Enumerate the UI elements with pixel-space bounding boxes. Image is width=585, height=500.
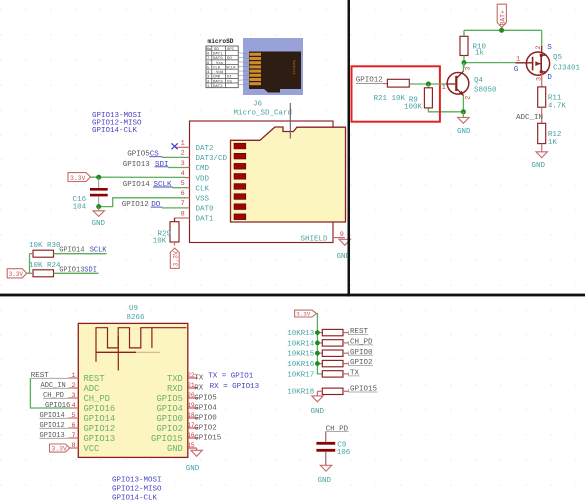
svg-text:VDD: VDD xyxy=(196,175,210,183)
svg-text:15: 15 xyxy=(187,442,195,449)
resistor R11 4.7K xyxy=(538,87,567,110)
svg-text:10K R30: 10K R30 xyxy=(29,242,61,250)
svg-text:R11: R11 xyxy=(548,95,562,103)
junction Q4 emitter xyxy=(461,109,466,114)
net label GPIO2 (R16) xyxy=(349,359,374,367)
svg-text:GPIO14: GPIO14 xyxy=(59,246,84,254)
resistor R12 1K xyxy=(538,123,562,147)
capacitor C16 104 xyxy=(73,177,108,211)
svg-text:ADC_IN: ADC_IN xyxy=(41,382,66,390)
svg-text:GPIO5: GPIO5 xyxy=(127,151,150,159)
svg-text:REST: REST xyxy=(84,374,105,384)
U9 pin 2 ADC xyxy=(41,382,100,394)
svg-text:DAT3: DAT3 xyxy=(213,80,223,84)
no-connect X on J6 pin 1 xyxy=(171,143,177,149)
svg-text:microSD: microSD xyxy=(208,38,234,45)
supply 3.3V (pull-ups) xyxy=(295,310,317,317)
svg-text:R12: R12 xyxy=(548,131,562,139)
svg-text:GPIO2: GPIO2 xyxy=(194,425,217,433)
svg-text:No: No xyxy=(207,48,212,52)
svg-text:4.7K: 4.7K xyxy=(548,102,567,110)
section divider vertical xyxy=(348,0,351,296)
svg-text:10KR17: 10KR17 xyxy=(287,371,314,379)
U9 pin 18 GPIO0 xyxy=(157,412,218,424)
svg-text:GPIO14: GPIO14 xyxy=(40,412,65,420)
svg-text:GND: GND xyxy=(532,162,546,170)
svg-text:U9: U9 xyxy=(129,305,138,313)
IC U9 8266 body xyxy=(78,305,188,457)
svg-text:10KR16: 10KR16 xyxy=(287,361,315,369)
junction R15 xyxy=(315,351,320,356)
svg-text:SHIELD: SHIELD xyxy=(301,235,329,243)
svg-text:VSS: VSS xyxy=(196,196,210,204)
svg-text:2: 2 xyxy=(181,150,185,158)
svg-text:DI: DI xyxy=(227,76,232,80)
svg-text:GPIO14-CLK: GPIO14-CLK xyxy=(92,127,138,135)
J6 pin 1 DAT2 xyxy=(175,140,214,153)
U9 pin 3 CH_PD xyxy=(43,392,110,404)
J6 micro-sd card graphic xyxy=(231,127,346,222)
J6 pin 4 VDD xyxy=(181,170,210,183)
svg-text:DAT3/CD: DAT3/CD xyxy=(196,155,228,163)
wire VSS to GND xyxy=(99,198,186,207)
svg-text:REST: REST xyxy=(31,372,50,380)
svg-text:SPI: SPI xyxy=(227,48,234,52)
net label GPIO13 SDI (R24) xyxy=(59,266,97,274)
svg-text:3: 3 xyxy=(464,67,472,71)
transistor Q5 CJ3401 xyxy=(514,30,581,87)
ground GND (R18) xyxy=(311,391,325,416)
svg-text:Q5: Q5 xyxy=(553,54,563,62)
svg-text:2: 2 xyxy=(72,382,76,390)
svg-text:5: 5 xyxy=(181,180,185,188)
section divider vertical (overlay) xyxy=(348,0,351,296)
ground GND (U9 pin15) xyxy=(186,448,203,473)
svg-text:CH_PD: CH_PD xyxy=(326,425,349,433)
svg-text:GPIO14-CLK: GPIO14-CLK xyxy=(112,495,158,500)
svg-text:DAT1: DAT1 xyxy=(213,53,223,57)
svg-text:ADC: ADC xyxy=(84,384,100,394)
svg-text:3: 3 xyxy=(72,392,76,400)
svg-text:GPIO14: GPIO14 xyxy=(123,181,151,189)
U9 antenna graphic xyxy=(96,328,187,371)
svg-text:GPIO13: GPIO13 xyxy=(84,434,116,444)
svg-text:6: 6 xyxy=(181,190,185,198)
svg-text:10K: 10K xyxy=(153,237,167,245)
U9 pin 6 GPIO12 xyxy=(40,422,116,434)
svg-text:10KR14: 10KR14 xyxy=(287,340,315,348)
svg-text:4: 4 xyxy=(181,170,185,178)
svg-text:2: 2 xyxy=(465,96,473,100)
supply BAT+ xyxy=(497,4,506,27)
U9 pin 17 GPIO2 xyxy=(157,422,217,434)
svg-text:SCLK: SCLK xyxy=(90,246,108,254)
svg-text:DAT0: DAT0 xyxy=(213,57,223,61)
svg-text:3.3V: 3.3V xyxy=(52,445,68,452)
supply 3.3V (U9 VCC) xyxy=(50,444,70,452)
note GPIO13-MOSI block (below U9) xyxy=(112,476,162,500)
ground GND (shield) xyxy=(337,239,351,261)
U9 pin 20 GPIO5 xyxy=(157,392,218,404)
resistor R15 10K xyxy=(287,350,348,359)
svg-text:CLK: CLK xyxy=(213,67,221,71)
svg-text:BAT+: BAT+ xyxy=(500,10,507,26)
svg-text:GPIO15: GPIO15 xyxy=(151,434,183,444)
net label GPIO14 SCLK (R30) xyxy=(59,246,107,254)
junction VDD xyxy=(96,175,101,180)
svg-text:GPIO2: GPIO2 xyxy=(157,424,183,434)
svg-text:GPIO0: GPIO0 xyxy=(194,415,217,423)
svg-text:GPIO14: GPIO14 xyxy=(84,414,116,424)
net label GPIO5 CS xyxy=(127,151,159,159)
svg-text:GPIO5: GPIO5 xyxy=(157,394,183,404)
resistor R30 10K xyxy=(29,242,107,257)
svg-text:3.3V: 3.3V xyxy=(296,311,310,318)
svg-text:5: 5 xyxy=(72,412,76,420)
svg-text:1: 1 xyxy=(442,84,446,92)
net label CH_PD (C9) xyxy=(326,425,349,433)
svg-text:D: D xyxy=(547,74,552,82)
resistor R14 10K xyxy=(287,340,348,349)
svg-text:1k: 1k xyxy=(475,50,485,58)
supply 3.3V (left edge) xyxy=(7,269,27,278)
resistor R10 1k xyxy=(460,30,487,62)
resistor R21 10K xyxy=(374,79,447,103)
svg-text:8266: 8266 xyxy=(127,314,146,322)
svg-text:VCC: VCC xyxy=(84,444,100,454)
svg-text:GPIO13: GPIO13 xyxy=(40,432,65,440)
svg-text:ADC_IN: ADC_IN xyxy=(516,114,543,122)
ground GND (Q4) xyxy=(457,112,471,136)
wire VDD 3.3V xyxy=(91,176,186,178)
microSD pinout image xyxy=(206,38,303,95)
svg-text:CLK: CLK xyxy=(196,185,210,193)
svg-text:DAT2: DAT2 xyxy=(196,145,214,153)
svg-text:SDI: SDI xyxy=(155,161,169,169)
J6 pin 5 CLK xyxy=(153,180,210,193)
U9 pin 5 GPIO14 xyxy=(40,412,116,424)
svg-text:GPIO12-MISO: GPIO12-MISO xyxy=(112,485,162,493)
svg-text:10KR18: 10KR18 xyxy=(287,389,314,397)
J6 shield pin stub (top) xyxy=(289,103,291,139)
resistor R18 10K xyxy=(287,388,348,397)
J6 pin 3 CMD xyxy=(155,160,210,173)
U9 pin 7 GPIO13 xyxy=(40,432,116,444)
svg-text:GND: GND xyxy=(167,444,183,454)
svg-text:10KR15: 10KR15 xyxy=(287,351,315,359)
ground GND (R12) xyxy=(532,144,548,171)
svg-text:GPIO12: GPIO12 xyxy=(84,424,116,434)
net label GPIO13 SDI xyxy=(123,161,169,169)
svg-text:SD: SD xyxy=(214,48,219,52)
net label CH_PD (R14) xyxy=(349,339,374,347)
svg-text:GPIO5: GPIO5 xyxy=(194,395,217,403)
svg-text:GPIO16: GPIO16 xyxy=(45,402,70,410)
svg-text:DAT1: DAT1 xyxy=(196,216,215,224)
resistor R13 10K xyxy=(287,329,348,338)
resistor R29 10K xyxy=(153,218,179,246)
junction R21/R9 xyxy=(426,82,431,87)
svg-text:3: 3 xyxy=(536,77,544,81)
svg-text:J6: J6 xyxy=(253,101,263,109)
svg-text:RX = GPIO13: RX = GPIO13 xyxy=(210,383,260,391)
U9 pin 19 GPIO4 xyxy=(157,402,218,414)
svg-text:GND: GND xyxy=(186,465,200,473)
svg-text:10KR13: 10KR13 xyxy=(287,330,315,338)
svg-text:RX: RX xyxy=(194,385,204,393)
svg-text:GPIO13: GPIO13 xyxy=(123,161,151,169)
svg-text:6: 6 xyxy=(72,422,76,430)
svg-text:GND: GND xyxy=(92,220,106,228)
U9 pin 4 GPIO16 xyxy=(45,402,115,414)
net label GPIO14 SCLK xyxy=(123,181,172,189)
svg-text:GND: GND xyxy=(311,408,325,416)
wire REST to GPIO16 xyxy=(30,378,68,408)
svg-text:8: 8 xyxy=(181,210,185,218)
resistor R9 100K xyxy=(404,84,432,112)
svg-text:S: S xyxy=(547,44,552,52)
J6 card contact pads xyxy=(234,143,246,219)
svg-text:Vss: Vss xyxy=(216,62,224,66)
svg-text:SCLK: SCLK xyxy=(154,181,173,189)
svg-text:3: 3 xyxy=(181,160,185,168)
J6 pin 8 DAT1 xyxy=(175,210,215,223)
svg-text:GPIO15: GPIO15 xyxy=(350,386,378,394)
svg-text:CS: CS xyxy=(227,80,232,84)
svg-text:2: 2 xyxy=(535,45,543,49)
svg-text:S8050: S8050 xyxy=(474,87,497,95)
svg-text:DAT2: DAT2 xyxy=(213,85,223,89)
svg-text:GPIO13: GPIO13 xyxy=(59,266,84,274)
svg-text:104: 104 xyxy=(73,203,87,211)
svg-text:8: 8 xyxy=(72,442,76,450)
svg-text:1K: 1K xyxy=(548,139,558,147)
transistor Q4 S8050 xyxy=(442,63,497,112)
svg-text:SCLK: SCLK xyxy=(226,67,236,71)
svg-text:DAT0: DAT0 xyxy=(196,206,215,214)
wire 3.3V pull-up bus xyxy=(317,314,323,374)
svg-text:DO: DO xyxy=(151,201,161,209)
U9 pin 21 RXD xyxy=(167,382,204,394)
junction BAT+ xyxy=(499,28,504,33)
svg-text:GPIO15: GPIO15 xyxy=(194,435,222,443)
svg-text:GPIO0: GPIO0 xyxy=(157,414,183,424)
U9 pin 22 TXD xyxy=(167,372,204,384)
supply 3.3V (VDD) xyxy=(68,173,91,182)
wire R10 to Q5 gate xyxy=(464,62,516,64)
net label GPIO15 (R18) xyxy=(349,386,378,394)
net label TX (R17) xyxy=(349,370,360,378)
svg-text:GPIO12: GPIO12 xyxy=(40,422,65,430)
svg-text:GND: GND xyxy=(318,477,332,485)
svg-text:10K R24: 10K R24 xyxy=(29,262,61,270)
wire BAT+ rail xyxy=(464,29,542,31)
svg-text:7: 7 xyxy=(181,200,185,208)
junction R16 xyxy=(315,361,320,366)
resistor R17 10K xyxy=(287,371,348,380)
svg-text:Micro_SD_Card: Micro_SD_Card xyxy=(234,110,293,118)
net label GPIO12 DO xyxy=(122,201,161,209)
junction R13 xyxy=(315,330,320,335)
section divider horizontal xyxy=(0,294,585,297)
net label GPIO12 (Q4 base) xyxy=(356,77,384,85)
svg-text:SDI: SDI xyxy=(84,266,97,274)
svg-text:100K: 100K xyxy=(404,104,423,112)
J6 pin 9 SHIELD xyxy=(301,231,345,244)
svg-text:TXD: TXD xyxy=(167,374,183,384)
U9 pin 16 GPIO15 xyxy=(151,432,222,444)
U9 pin 15 GND xyxy=(167,442,197,454)
svg-text:CMD: CMD xyxy=(196,165,210,173)
svg-text:Q4: Q4 xyxy=(474,77,484,85)
J6 pin 6 VSS xyxy=(181,190,210,203)
svg-text:CH_PD: CH_PD xyxy=(43,392,64,400)
svg-text:GPIO13-MOSI: GPIO13-MOSI xyxy=(112,476,162,484)
svg-text:1: 1 xyxy=(181,140,185,148)
svg-text:CMD: CMD xyxy=(213,76,221,80)
svg-text:3.3V: 3.3V xyxy=(173,251,180,267)
svg-text:7: 7 xyxy=(72,432,76,440)
svg-text:SanDisk: SanDisk xyxy=(291,60,296,75)
J6 pin 7 DAT0 xyxy=(151,200,214,213)
ground GND (C9) xyxy=(318,465,332,485)
supply 3.3V (R29) xyxy=(170,248,179,268)
note text GPIO13-MOSI block (top left) xyxy=(92,112,142,135)
svg-text:GPIO4: GPIO4 xyxy=(194,405,217,413)
svg-text:4: 4 xyxy=(72,402,76,410)
junction R14 xyxy=(315,341,320,346)
svg-text:CJ3401: CJ3401 xyxy=(553,65,581,73)
svg-text:G: G xyxy=(514,66,519,74)
svg-text:106: 106 xyxy=(337,449,351,457)
resistor R16 10K xyxy=(287,360,348,369)
svg-text:1: 1 xyxy=(516,56,520,64)
svg-text:1: 1 xyxy=(72,372,76,380)
net label GPIO0 (R15) xyxy=(349,349,374,357)
U9 pin 8 VCC xyxy=(68,442,99,454)
svg-text:CH_PD: CH_PD xyxy=(84,394,110,404)
wire R11 to R12 / net label ADC_IN xyxy=(516,107,543,123)
wire Q4 emitter to R9 xyxy=(428,108,463,112)
svg-text:9: 9 xyxy=(340,231,344,239)
svg-text:3.3V: 3.3V xyxy=(70,175,86,182)
svg-text:GPIO4: GPIO4 xyxy=(157,404,183,414)
U9 pin 1 REST xyxy=(68,372,104,384)
svg-text:DO: DO xyxy=(227,57,232,61)
J6 pin 2 DAT3/CD xyxy=(149,150,227,163)
svg-text:Vdd: Vdd xyxy=(216,70,224,75)
svg-text:GPIO16: GPIO16 xyxy=(84,404,116,414)
svg-text:GPIO12: GPIO12 xyxy=(122,201,149,209)
svg-text:RXD: RXD xyxy=(167,384,183,394)
svg-text:R21 10K: R21 10K xyxy=(374,95,406,103)
svg-text:TX = GPIO1: TX = GPIO1 xyxy=(208,373,254,381)
svg-text:GND: GND xyxy=(457,128,471,136)
ground GND (C16) xyxy=(92,207,106,228)
svg-text:CS: CS xyxy=(150,151,160,159)
junction C16 GND xyxy=(96,204,101,209)
net label REST (U9) xyxy=(31,372,69,380)
svg-text:3.3V: 3.3V xyxy=(9,271,24,278)
resistor R24 10K xyxy=(29,262,99,277)
connector J6 box xyxy=(190,101,334,243)
wire 3.3V to R30/R24 xyxy=(27,254,30,274)
svg-text:TX: TX xyxy=(194,375,204,383)
junction Q4 collector xyxy=(462,60,467,65)
net label REST (R13) xyxy=(349,328,369,336)
highlight box xyxy=(352,66,440,121)
capacitor C9 106 xyxy=(316,432,350,466)
